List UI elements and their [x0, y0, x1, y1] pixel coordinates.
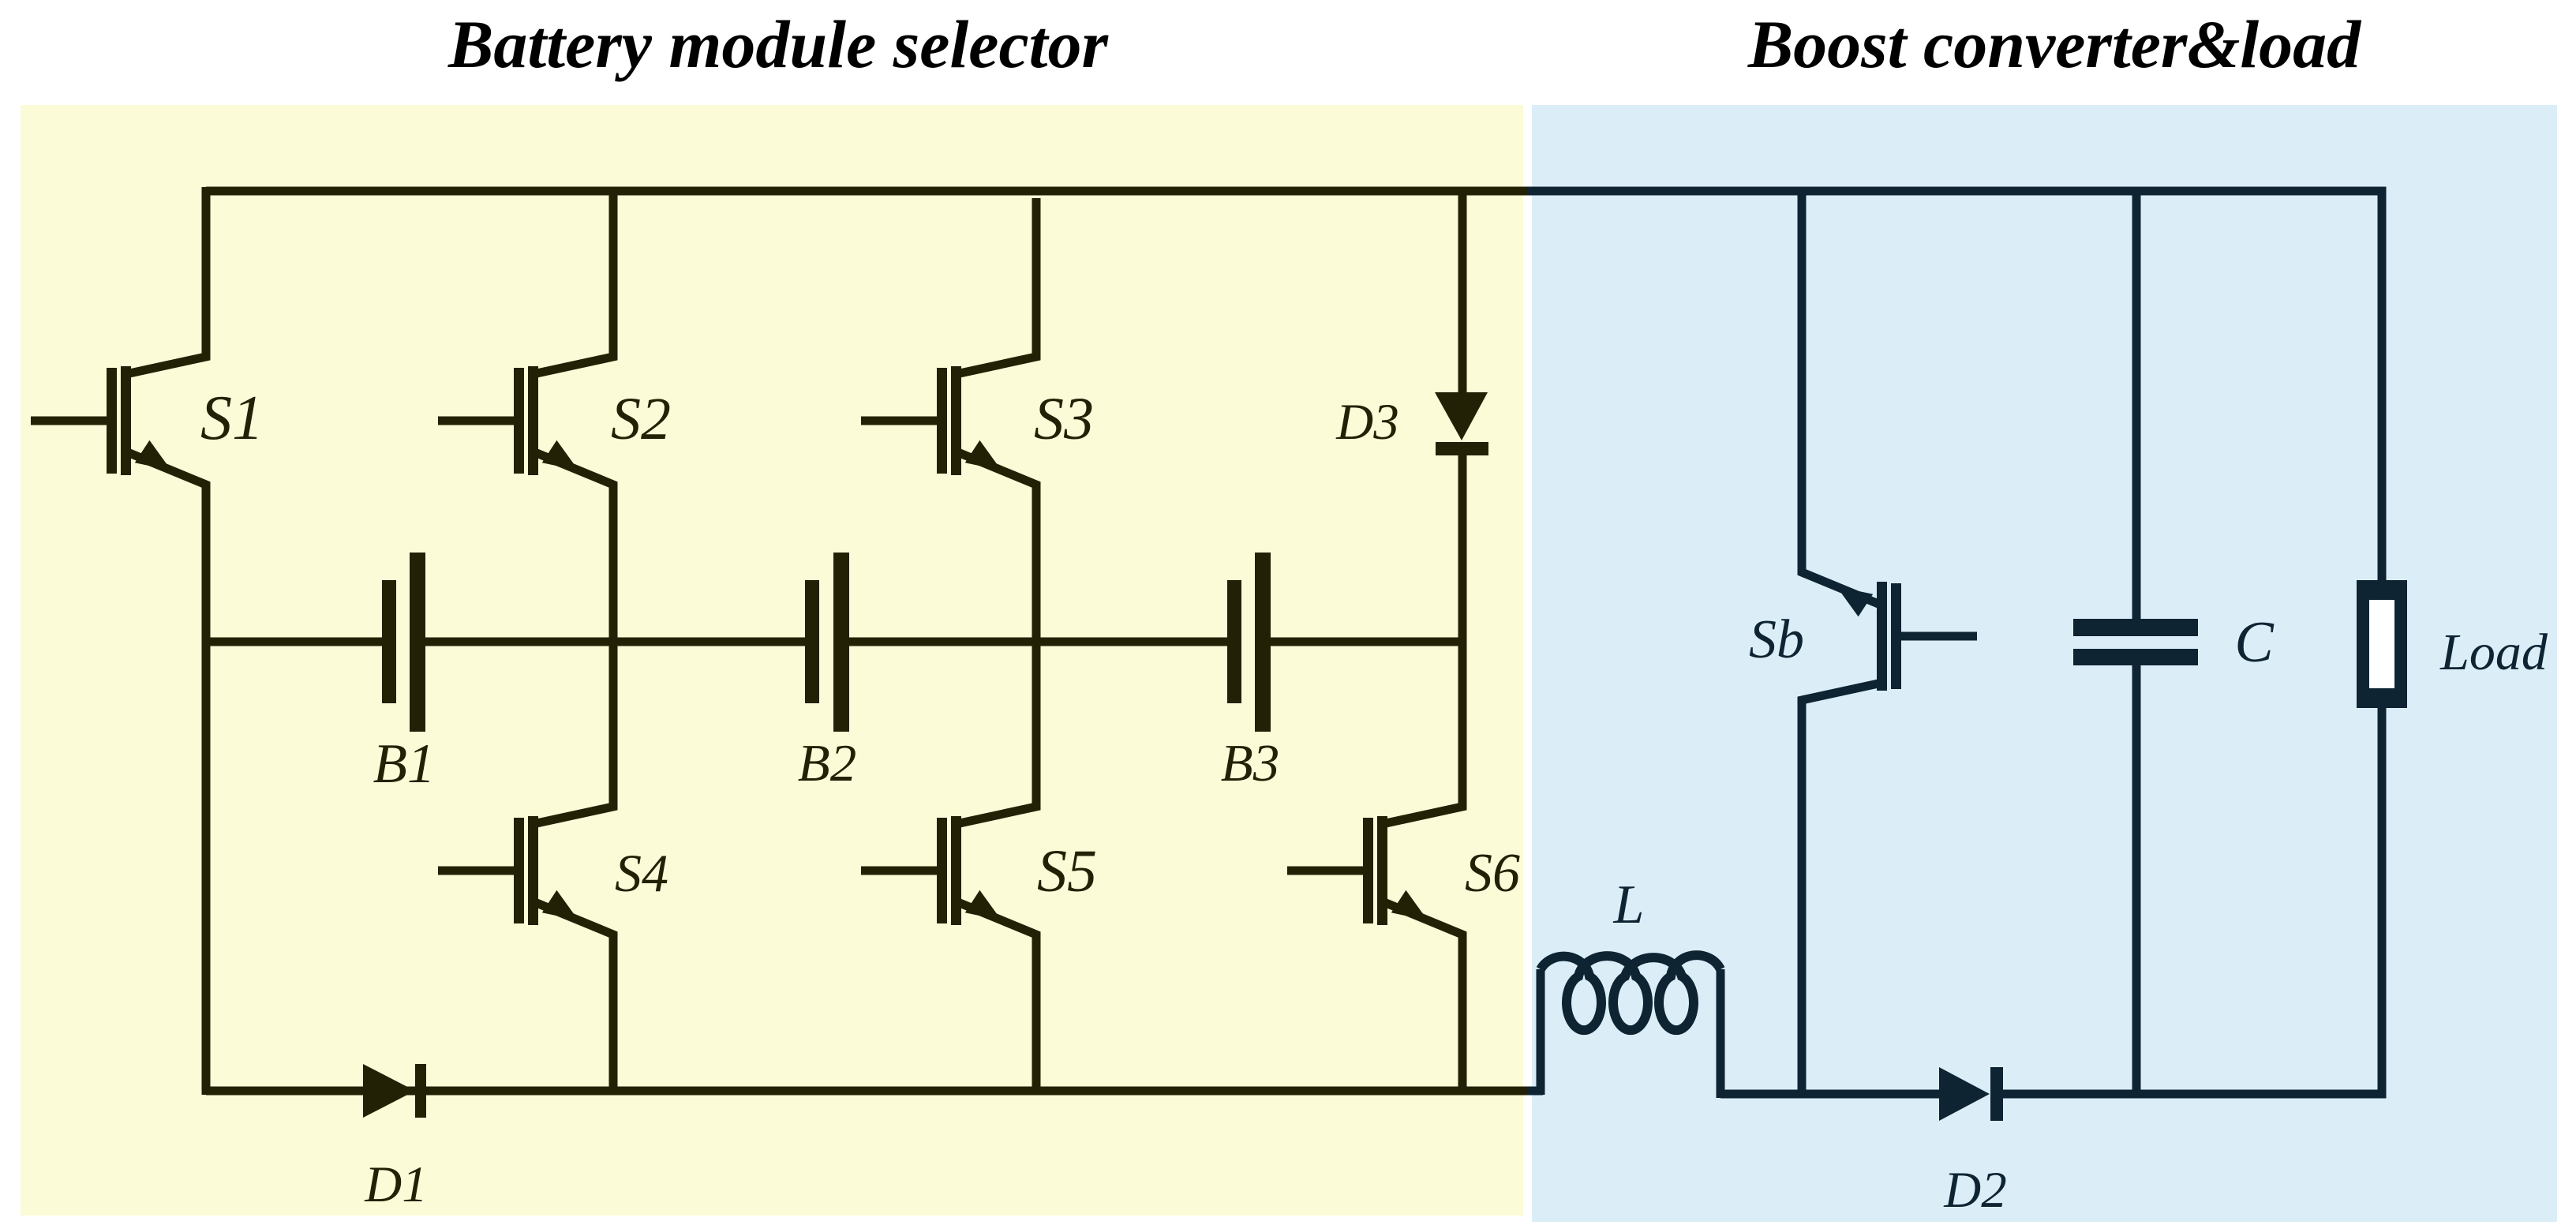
svg-text:S6: S6: [1465, 843, 1520, 904]
svg-text:B2: B2: [798, 734, 856, 792]
svg-text:S3: S3: [1034, 386, 1094, 452]
svg-text:S2: S2: [611, 386, 671, 452]
svg-text:Battery module selector: Battery module selector: [447, 6, 1110, 82]
svg-text:D2: D2: [1943, 1162, 2006, 1219]
svg-text:S1: S1: [200, 384, 264, 453]
svg-text:S4: S4: [615, 843, 668, 903]
svg-text:L: L: [1613, 875, 1645, 935]
svg-text:B1: B1: [373, 733, 436, 795]
svg-text:B3: B3: [1221, 734, 1279, 792]
svg-text:Sb: Sb: [1749, 609, 1804, 670]
svg-text:D3: D3: [1335, 394, 1398, 451]
svg-text:D1: D1: [364, 1156, 427, 1213]
svg-text:Load: Load: [2439, 624, 2548, 681]
svg-text:Boost converter&load: Boost converter&load: [1747, 6, 2362, 82]
svg-text:S5: S5: [1037, 838, 1097, 905]
svg-text:C: C: [2234, 610, 2275, 675]
